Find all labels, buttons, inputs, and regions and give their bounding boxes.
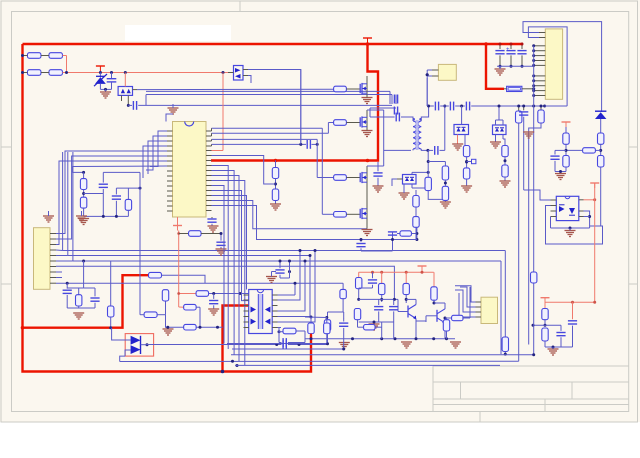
- svg-text:+: +: [506, 47, 510, 53]
